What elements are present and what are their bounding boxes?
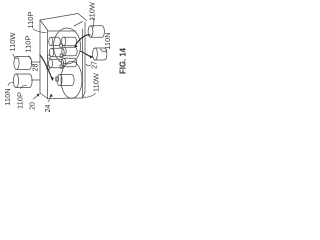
external cell R1 end cap (88, 26, 93, 38)
case outer back-left edge (39, 20, 41, 93)
cell tab R4 (56, 77, 59, 81)
leader 110P left mid (29, 56, 32, 60)
leader 110N right (101, 49, 108, 52)
arrowhead into case interior (75, 44, 78, 47)
svg-text:24: 24 (45, 105, 52, 113)
wire L2 to case (32, 79, 41, 81)
cell R2R body (64, 47, 77, 56)
external cell R2 end cap (93, 48, 98, 60)
svg-text:110P: 110P (26, 12, 35, 29)
case top back rim edge (40, 14, 78, 21)
svg-text:110W: 110W (87, 1, 96, 21)
case bottom front edge (48, 97, 83, 100)
leader 110N bottom-left (8, 82, 14, 85)
case bottom left diagonal (40, 93, 48, 99)
case outer back-right edge (84, 22, 86, 92)
case top right rim diagonal (78, 14, 87, 21)
leader 28 (31, 63, 34, 65)
cell R1L body (51, 37, 61, 45)
thick wire from cell R1 into case (75, 35, 90, 46)
svg-text:110P: 110P (23, 36, 32, 53)
leader 110W top-right (93, 18, 94, 28)
svg-text:110N: 110N (103, 32, 112, 49)
case top left rim diagonal (40, 20, 48, 31)
cell R3L end cap (48, 59, 52, 68)
case top right sloped edge (74, 22, 83, 27)
svg-text:28: 28 (32, 64, 39, 72)
svg-text:110W: 110W (91, 72, 100, 92)
arrowhead at cell R2 (90, 55, 93, 58)
cell R2R end cap (62, 47, 66, 56)
cell R1R end cap (61, 37, 65, 46)
svg-text:110P: 110P (15, 92, 24, 109)
svg-text:FIG. 14: FIG. 14 (119, 47, 128, 74)
cell R2L body (52, 48, 65, 57)
cell R1L end cap (49, 37, 53, 45)
leader 110P bottom-left (21, 85, 27, 88)
external cell L1 end cap (14, 57, 19, 70)
leader 27 (86, 64, 91, 66)
case inner front-left edge (47, 31, 49, 99)
external cell L2 body (16, 74, 32, 88)
cell R3L body (51, 59, 64, 68)
arrowhead of left thick wire (51, 77, 54, 80)
cell R3R end cap (61, 58, 65, 67)
external cell L1 body (17, 57, 32, 70)
cell R2L end cap (49, 48, 53, 57)
arrowhead leader 20 (37, 94, 40, 97)
svg-text:110N: 110N (3, 88, 12, 105)
cell tab R1R (60, 44, 63, 47)
external cell R1 body (91, 26, 105, 38)
leader 110W left (13, 54, 17, 59)
winding loop lower (61, 61, 82, 98)
cell tab R2L (48, 55, 51, 58)
case bottom right join (83, 92, 86, 98)
cell R4 end cap (57, 75, 62, 86)
leader 110P top-left (33, 29, 46, 33)
cell tab R2R (60, 54, 63, 57)
cell R4 body (60, 75, 75, 86)
cell R3R body (64, 58, 77, 67)
winding loop upper (54, 28, 81, 64)
leader 20 (34, 94, 40, 99)
svg-text:110W: 110W (8, 32, 17, 52)
external cell R2 body (95, 48, 107, 60)
thick wire into case from left (40, 55, 53, 80)
thick wire from case to cell R2 (80, 51, 92, 57)
svg-text:27: 27 (91, 61, 98, 69)
wire L1 to case (32, 61, 41, 63)
arrowhead leader 24 (50, 94, 53, 97)
leader 110W bottom-right (83, 94, 95, 98)
case inner front top rim (48, 30, 77, 32)
case front-right edge (82, 29, 84, 98)
cell R1R body (64, 37, 77, 46)
cell tab R3R (60, 65, 63, 68)
cell tab R3L (47, 66, 50, 69)
leader 24 (48, 95, 51, 103)
external cell L2 end cap (13, 74, 18, 88)
svg-text:20: 20 (29, 102, 36, 110)
